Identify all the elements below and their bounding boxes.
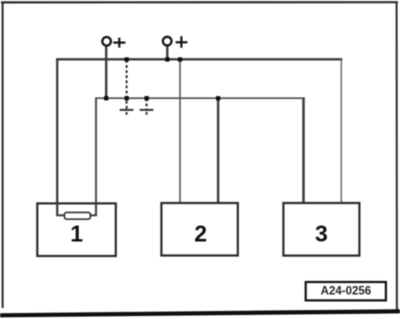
svg-text:A24-0256: A24-0256 <box>321 286 372 298</box>
svg-text:2: 2 <box>194 221 207 247</box>
svg-text:1: 1 <box>70 221 83 247</box>
svg-text:3: 3 <box>315 221 328 247</box>
